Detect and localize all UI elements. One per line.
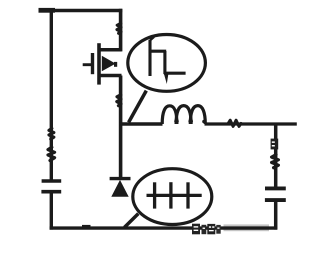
wire mid bus left segment [119,122,163,125]
waveform E2 tick 2 [169,182,172,208]
inductor L1 stem knob 3 [202,120,206,124]
inductor L1 hump 3 [190,106,205,124]
label blob on bottom bus [82,225,91,229]
text noise glyph 2 under bottom bus [202,225,207,234]
waveform E1 falling edge [163,51,166,74]
waveform E2 tick 1 [153,182,156,208]
diode D1 anode triangle [111,180,128,197]
waveform E2 baseline [147,194,202,197]
callout tail E2 [124,214,138,228]
resistor squiggle on right rail [272,155,279,168]
wire right rail lower [274,202,278,230]
waveform E2 tick 3 [186,182,189,208]
waveform E1 high level [149,50,167,53]
capacitor C2 bottom plate [265,198,286,202]
wire left rail upper [50,9,53,180]
MOSFET Q1 gate bar [91,53,94,74]
inductor L1 stem knob 2 [188,119,193,124]
callout ellipse E1 [128,35,206,92]
wire drain vertical [119,9,123,52]
resistor squiggle on mid bus [228,120,241,126]
gray smudge on bottom bus [224,224,270,231]
wire source vertical [119,76,123,179]
blob on right rail [271,139,279,150]
wire top bus thick left blob [39,8,56,13]
capacitor C1 bottom plate [41,190,61,194]
squiggle on source wire [117,95,121,106]
wire bottom bus [50,226,278,229]
callout ellipse E2 [133,169,212,225]
MOSFET Q1 arrow tip tick [114,62,117,67]
waveform E1 top hook [150,37,154,40]
wire left rail lower [50,193,53,229]
text noise glyph 4 under bottom bus [216,225,220,234]
wire right rail upper [274,123,278,187]
capacitor C2 top plate [265,186,286,190]
text noise glyph 1 under bottom bus [192,224,200,235]
wire top bus [39,9,123,12]
inductor L1 stem knob 1 [174,119,179,124]
MOSFET Q1 drain lead [99,48,122,52]
waveform E1 rising edge [148,40,151,76]
MOSFET Q1 channel bar [97,43,101,84]
squiggle on drain wire [117,23,121,33]
inductor L1 hump 1 [162,106,177,124]
inductor L1 hump 2 [176,106,191,124]
MOSFET Q1 arrow [102,56,116,71]
resistor squiggle lower on left rail [48,147,55,160]
waveform E1 undershoot spike [164,74,169,84]
capacitor C1 top plate [42,179,62,183]
MOSFET Q1 gate lead [83,63,92,66]
resistor squiggle upper on left rail [49,128,54,139]
callout tail E1 [129,91,147,123]
diode D1 cathode bar [110,177,131,180]
waveform E1 low level [164,72,186,75]
MOSFET Q1 source lead [99,74,122,78]
text noise glyph 3 under bottom bus [207,224,215,234]
wire mid bus right segment [205,122,297,125]
